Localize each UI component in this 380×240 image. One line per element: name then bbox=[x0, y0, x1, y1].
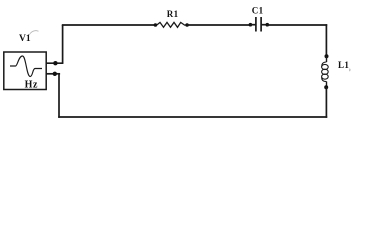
svg-text:V1: V1 bbox=[19, 34, 31, 44]
wire: top segment from riser to R1 bbox=[62, 24, 156, 26]
voltage source V1 (function generator box with sine symbol) bbox=[4, 52, 46, 90]
svg-text:L1: L1 bbox=[338, 60, 349, 70]
wire: R1 to C1 bbox=[187, 24, 251, 26]
junction dot: L1 top lead bbox=[325, 54, 329, 58]
wire: V1 bottom terminal stub bbox=[46, 73, 60, 75]
wire: C1 right lead bbox=[261, 24, 267, 26]
wire: L1 bottom to bottom-right corner bbox=[325, 87, 327, 118]
wire: bottom segment bbox=[58, 116, 327, 118]
junction dot: L1 bottom lead bbox=[324, 85, 328, 89]
junction dot: C1 right lead bbox=[266, 23, 270, 27]
svg-text:R1: R1 bbox=[167, 9, 179, 19]
wire: C1 left lead bbox=[250, 24, 256, 26]
junction dot: R1 left lead bbox=[154, 23, 158, 27]
junction dot: R1 right lead bbox=[185, 23, 189, 27]
junction dot: V1 top terminal bbox=[53, 61, 57, 65]
resistor R1 bbox=[157, 22, 186, 27]
wire: C1 to top-right corner bbox=[267, 24, 327, 26]
faint stray mark above-right of V1 bbox=[29, 31, 38, 35]
junction dot: V1 bottom terminal bbox=[53, 72, 57, 76]
svg-text:C1: C1 bbox=[252, 6, 264, 16]
wire: left riser up from V1 top terminal bbox=[62, 25, 64, 63]
junction dot: C1 left lead bbox=[249, 23, 253, 27]
svg-text:Hz: Hz bbox=[25, 79, 38, 90]
wire: bottom-left riser bbox=[58, 74, 60, 118]
inductor L1 (coil of 3 loops) bbox=[322, 56, 329, 87]
capacitor C1 (parallel plates) bbox=[256, 17, 261, 32]
wire: V1 top terminal stub bbox=[46, 62, 63, 64]
faint comma after L1 bbox=[349, 69, 351, 72]
wire: right riser down to L1 bbox=[325, 24, 327, 56]
